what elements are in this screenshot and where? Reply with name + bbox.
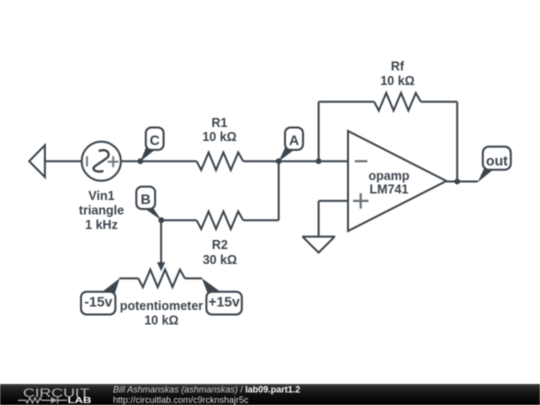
svg-text:http://circuitlab.com/c9rcknsh: http://circuitlab.com/c9rcknshajr5c (113, 395, 249, 405)
svg-text:1 kHz: 1 kHz (85, 218, 118, 232)
svg-text:LAB: LAB (68, 396, 92, 405)
svg-text:Rf: Rf (391, 60, 405, 74)
svg-text:R1: R1 (212, 116, 228, 130)
svg-text:Bill Ashmanskas (ashmanskas) /: Bill Ashmanskas (ashmanskas) / lab09.par… (113, 385, 300, 395)
svg-text:R2: R2 (212, 238, 228, 252)
svg-text:10 kΩ: 10 kΩ (144, 314, 178, 328)
svg-text:opamp: opamp (369, 169, 410, 183)
svg-text:out: out (486, 152, 508, 168)
svg-text:potentiometer: potentiometer (120, 299, 203, 313)
svg-text:LM741: LM741 (370, 183, 409, 197)
svg-text:A: A (289, 132, 299, 148)
svg-text:B: B (141, 191, 151, 207)
svg-text:10 kΩ: 10 kΩ (202, 130, 236, 144)
svg-text:Vin1: Vin1 (88, 189, 114, 203)
svg-text:30 kΩ: 30 kΩ (203, 253, 237, 267)
svg-text:+15v: +15v (208, 294, 240, 310)
svg-text:10 kΩ: 10 kΩ (380, 74, 414, 88)
svg-text:C: C (150, 132, 160, 148)
svg-text:-15v: -15v (84, 294, 112, 310)
svg-text:triangle: triangle (79, 204, 124, 218)
